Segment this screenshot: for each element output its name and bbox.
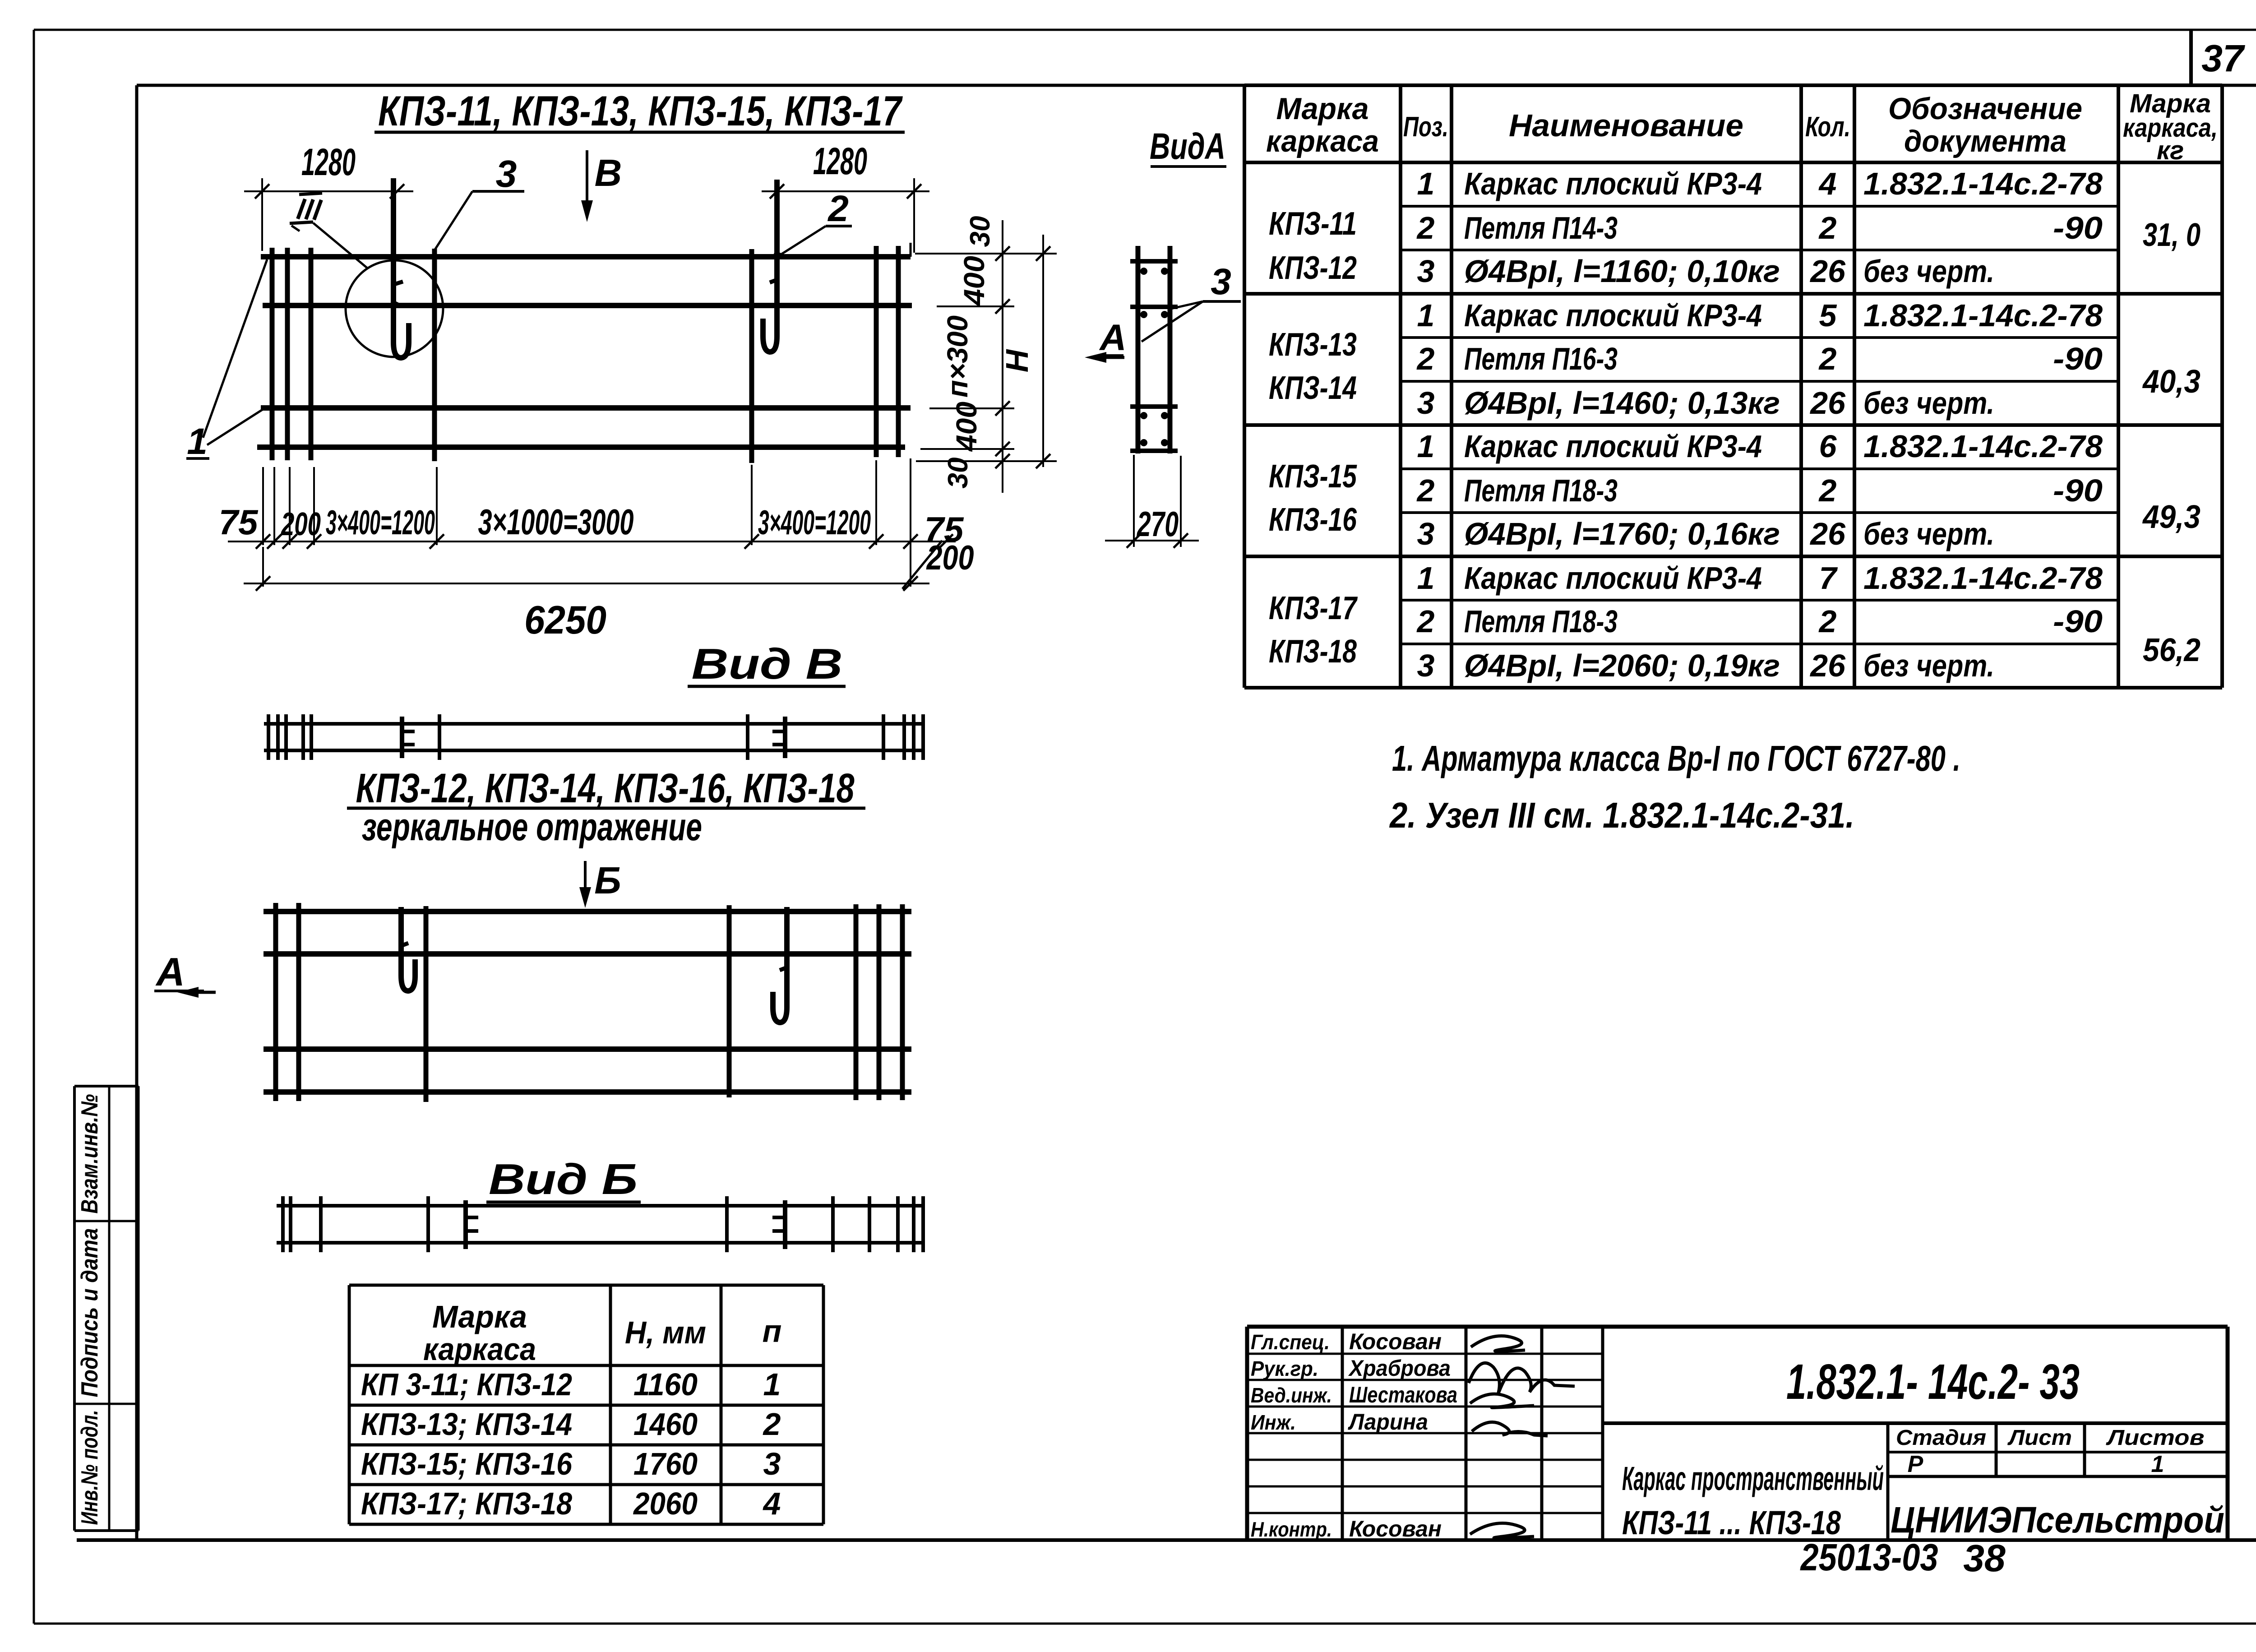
left margin stamp column (Взам.инв.№ / Подпись и дата / Инв.№ подл.) <box>74 1086 139 1531</box>
edge view strip (upper): cross ticks <box>268 714 923 760</box>
svg-text:Вид В: Вид В <box>692 640 843 688</box>
section arrow Б <box>579 859 621 908</box>
svg-text:Каркас пространственный: Каркас пространственный <box>1622 1460 1884 1497</box>
svg-text:п: п <box>763 1314 782 1349</box>
svg-text:3: 3 <box>1211 261 1231 302</box>
overall dimension 6250 <box>244 576 929 642</box>
svg-text:270: 270 <box>1137 504 1179 544</box>
svg-text:КПЗ-16: КПЗ-16 <box>1269 502 1357 538</box>
svg-text:Петля П18-3: Петля П18-3 <box>1464 473 1618 508</box>
vertical bar left cluster 3 <box>309 248 314 460</box>
svg-text:Каркас плоский КР3-4: Каркас плоский КР3-4 <box>1464 298 1762 333</box>
longitudinal bar 1 (top chord) <box>261 254 911 259</box>
svg-text:1: 1 <box>1417 298 1435 333</box>
section tie 2 <box>1130 305 1178 309</box>
svg-text:31, 0: 31, 0 <box>2143 217 2201 253</box>
svg-text:1: 1 <box>1417 560 1435 596</box>
svg-text:1. Арматура класса Вр-I п: 1. Арматура класса Вр-I по ГОСТ 6727-80 … <box>1392 738 1960 778</box>
svg-text:1280: 1280 <box>301 141 356 183</box>
svg-text:400: 400 <box>950 402 983 452</box>
svg-text:Ø4ВрI, l=1760; 0,16кг: Ø4ВрI, l=1760; 0,16кг <box>1464 516 1780 551</box>
svg-text:3: 3 <box>1417 385 1435 421</box>
Вид Б lifting loop hook 2 <box>773 907 787 1023</box>
label 3 with leaders (section) <box>1142 261 1241 342</box>
svg-text:3: 3 <box>1417 648 1435 683</box>
svg-text:26: 26 <box>1809 385 1846 421</box>
svg-text:2060: 2060 <box>633 1486 698 1521</box>
svg-text:1160: 1160 <box>633 1367 698 1402</box>
view title Вид Б <box>486 1155 641 1203</box>
section Вид А: vertical bar left <box>1136 246 1141 453</box>
svg-text:4: 4 <box>763 1486 781 1521</box>
Вид Б vertical bar left 1 <box>273 903 278 1101</box>
svg-text:Обозначение: Обозначение <box>1888 92 2082 126</box>
svg-text:3: 3 <box>496 153 517 195</box>
Вид Б vertical bar right 1 <box>854 904 859 1100</box>
svg-text:26: 26 <box>1809 254 1846 289</box>
svg-text:п×300: п×300 <box>941 315 974 398</box>
svg-text:2: 2 <box>763 1407 781 1442</box>
svg-text:7: 7 <box>1819 560 1838 596</box>
section tie 1 <box>1130 259 1178 264</box>
svg-text:А: А <box>1099 317 1126 358</box>
view title Вид В <box>688 640 846 688</box>
section Вид А: vertical bar right <box>1168 246 1173 453</box>
bottom dimension chain line <box>219 502 974 589</box>
svg-text:А: А <box>155 949 185 994</box>
svg-text:КПЗ-17; КПЗ-18: КПЗ-17; КПЗ-18 <box>361 1486 572 1521</box>
svg-text:Ø4ВрI, l=1160; 0,10кг: Ø4ВрI, l=1160; 0,10кг <box>1464 254 1780 289</box>
svg-text:КПЗ-13; КПЗ-14: КПЗ-13; КПЗ-14 <box>361 1407 572 1442</box>
svg-text:Р: Р <box>1908 1451 1923 1477</box>
Вид Б vertical bar right 2 <box>877 904 882 1100</box>
svg-text:3: 3 <box>1417 516 1435 551</box>
svg-text:2: 2 <box>827 188 849 229</box>
svg-text:Вед.инж.: Вед.инж. <box>1251 1384 1332 1407</box>
svg-text:Наименование: Наименование <box>1509 108 1743 143</box>
svg-text:Лист: Лист <box>2007 1426 2072 1450</box>
bottom extension lines <box>263 458 911 587</box>
svg-text:Косован: Косован <box>1349 1516 1442 1541</box>
svg-text:КПЗ-11: КПЗ-11 <box>1269 206 1357 242</box>
svg-text:4: 4 <box>1818 166 1837 201</box>
view direction arrow А (right of cage) <box>1085 317 1127 363</box>
drawing title КПЗ-11, КПЗ-13, КПЗ-15, КПЗ-17 <box>374 87 905 134</box>
Вид Б vertical bar (pos 3) <box>424 906 429 1102</box>
svg-text:26: 26 <box>1809 516 1846 551</box>
svg-text:Храброва: Храброва <box>1348 1356 1451 1381</box>
svg-text:Ларина: Ларина <box>1348 1409 1428 1435</box>
svg-text:Н.контр.: Н.контр. <box>1251 1518 1332 1541</box>
vertical bar mid <box>749 249 754 463</box>
svg-text:КПЗ-15; КПЗ-16: КПЗ-15; КПЗ-16 <box>361 1446 573 1481</box>
longitudinal bar 2 <box>263 303 912 308</box>
svg-text:Гл.спец.: Гл.спец. <box>1251 1330 1330 1354</box>
svg-text:Шестакова: Шестакова <box>1349 1382 1457 1407</box>
svg-text:6: 6 <box>1819 429 1837 464</box>
svg-text:Взам.инв.№: Взам.инв.№ <box>77 1094 103 1214</box>
svg-text:КПЗ-12, КПЗ-14, КПЗ-16, КПЗ-: КПЗ-12, КПЗ-14, КПЗ-16, КПЗ-18 <box>356 765 855 811</box>
Вид Б vertical bar mid <box>727 905 732 1097</box>
svg-text:2: 2 <box>1818 604 1837 639</box>
edge view strip (lower): cross ticks <box>283 1196 923 1252</box>
right extension lines <box>911 243 1057 461</box>
vertical bar right cluster 1 <box>874 246 879 457</box>
lifting loop hook 1 (поз.2) <box>393 178 409 358</box>
svg-text:каркаса: каркаса <box>423 1332 536 1367</box>
title КПЗ-12, КПЗ-14, КПЗ-16, КПЗ-18 <box>347 765 865 849</box>
svg-text:Петля П16-3: Петля П16-3 <box>1464 341 1618 376</box>
svg-text:КПЗ-13: КПЗ-13 <box>1269 327 1357 363</box>
dimension 1280 (left) <box>244 141 413 251</box>
svg-text:26: 26 <box>1809 648 1846 683</box>
svg-text:2: 2 <box>1818 210 1837 245</box>
svg-text:Каркас плоский КР3-4: Каркас плоский КР3-4 <box>1464 560 1762 596</box>
view label Вид А <box>1150 126 1226 167</box>
svg-text:зеркальное отражение: зеркальное отражение <box>362 805 702 849</box>
svg-text:Рук.гр.: Рук.гр. <box>1251 1357 1318 1380</box>
svg-text:75: 75 <box>219 502 259 542</box>
svg-text:1.832.1-14с.2-78: 1.832.1-14с.2-78 <box>1863 298 2103 333</box>
svg-text:Подпись и дата: Подпись и дата <box>77 1228 103 1397</box>
label 1 with leaders <box>186 259 267 462</box>
table Марка каркаса / Н,мм / п <box>349 1285 823 1524</box>
svg-text:Кол.: Кол. <box>1805 111 1850 143</box>
svg-text:КП 3-11; КПЗ-12: КП 3-11; КПЗ-12 <box>361 1367 572 1402</box>
svg-text:без черт.: без черт. <box>1863 648 1994 683</box>
section tie 3 <box>1130 404 1178 409</box>
detail circle узел III <box>346 260 443 357</box>
svg-text:Петля П14-3: Петля П14-3 <box>1464 210 1618 245</box>
dimension 1280 (right) <box>762 140 929 253</box>
svg-text:1: 1 <box>187 421 208 462</box>
longitudinal bar 3 <box>261 405 911 411</box>
svg-text:Стадия: Стадия <box>1896 1426 1986 1450</box>
section tie 4 <box>1130 449 1178 453</box>
svg-text:56,2: 56,2 <box>2143 632 2201 668</box>
svg-text:6250: 6250 <box>524 597 606 642</box>
vertical bar left cluster 2 <box>285 248 290 460</box>
svg-text:38: 38 <box>1963 1537 2006 1579</box>
view direction arrow А (left of Вид Б) <box>154 949 216 998</box>
svg-text:200: 200 <box>281 506 321 542</box>
sheet number box 37 <box>2191 30 2245 85</box>
svg-text:1280: 1280 <box>813 140 867 182</box>
vertical bar pos.3 (left) <box>432 249 437 461</box>
svg-text:КПЗ-15: КПЗ-15 <box>1269 458 1357 495</box>
specification rows <box>1269 166 2201 683</box>
stage/sheet cells <box>1896 1426 2205 1477</box>
label III with leader <box>290 193 367 268</box>
svg-text:Вид Б: Вид Б <box>489 1155 638 1203</box>
svg-text:КПЗ-14: КПЗ-14 <box>1269 370 1357 406</box>
svg-text:Листов: Листов <box>2106 1426 2204 1450</box>
label 2 with leader <box>780 188 852 255</box>
svg-text:200: 200 <box>926 539 974 577</box>
edge view strip (lower): rails <box>277 1206 925 1243</box>
svg-text:2: 2 <box>1416 604 1435 639</box>
svg-text:3×1000=3000: 3×1000=3000 <box>478 502 634 542</box>
edge view strip (upper): loop marks <box>402 717 785 758</box>
svg-text:37: 37 <box>2201 37 2245 79</box>
document code 25013-03 38 <box>1800 1536 2006 1579</box>
svg-text:кг: кг <box>2157 136 2184 165</box>
Вид Б longitudinal bar 2 <box>264 951 911 957</box>
svg-text:Б: Б <box>594 859 621 902</box>
svg-text:Ø4ВрI, l=2060; 0,19кг: Ø4ВрI, l=2060; 0,19кг <box>1464 648 1780 683</box>
section arrow В <box>581 150 622 222</box>
svg-text:Петля П18-3: Петля П18-3 <box>1464 604 1618 639</box>
vertical bar left cluster 1 <box>270 248 275 460</box>
svg-text:без черт.: без черт. <box>1863 385 1994 421</box>
svg-text:3×400=1200: 3×400=1200 <box>758 504 871 542</box>
svg-text:1: 1 <box>1417 429 1435 464</box>
svg-text:49,3: 49,3 <box>2142 499 2201 535</box>
svg-text:2: 2 <box>1416 210 1435 245</box>
svg-text:1760: 1760 <box>633 1446 698 1481</box>
lifting loop hook 2 (поз.2) <box>763 180 777 352</box>
svg-text:без черт.: без черт. <box>1863 254 1994 289</box>
svg-text:ВидА: ВидА <box>1150 126 1225 167</box>
svg-text:-90: -90 <box>2053 341 2103 376</box>
svg-text:2: 2 <box>1818 473 1837 508</box>
svg-text:2: 2 <box>1416 341 1435 376</box>
Вид Б longitudinal bar 3 <box>264 1046 911 1052</box>
svg-text:1: 1 <box>2151 1451 2164 1477</box>
svg-text:1460: 1460 <box>633 1407 698 1442</box>
specification table <box>1244 85 2222 688</box>
svg-text:-90: -90 <box>2053 473 2103 508</box>
title text Каркас пространственный КПЗ-11 ... КПЗ-18 <box>1622 1460 1884 1541</box>
svg-text:Каркас плоский КР3-4: Каркас плоский КР3-4 <box>1464 429 1762 464</box>
svg-text:1: 1 <box>763 1367 781 1402</box>
svg-text:2: 2 <box>1416 473 1435 508</box>
right dimension chain 30/400/nх300/400/30 <box>941 216 1010 493</box>
dimension 270 (section) <box>1105 455 1199 548</box>
specification table header text <box>1266 89 2218 165</box>
svg-text:В: В <box>595 152 622 194</box>
svg-text:25013-03: 25013-03 <box>1800 1536 1938 1578</box>
svg-text:3: 3 <box>763 1446 781 1481</box>
svg-text:1.832.1-14с.2-78: 1.832.1-14с.2-78 <box>1863 560 2103 596</box>
svg-text:1: 1 <box>1417 166 1435 201</box>
svg-text:1.832.1-14с.2-78: 1.832.1-14с.2-78 <box>1863 429 2103 464</box>
vertical bar right cluster 2 <box>896 246 901 457</box>
Вид Б vertical bar left 2 <box>296 903 301 1101</box>
svg-text:30: 30 <box>965 216 996 247</box>
svg-text:без черт.: без черт. <box>1863 516 1994 551</box>
Вид Б vertical bar right 3 <box>900 904 905 1100</box>
svg-text:каркаса: каркаса <box>1266 124 1379 158</box>
longitudinal bar 4 (bottom chord) <box>257 444 905 450</box>
svg-text:1.832.1-14с.2-78: 1.832.1-14с.2-78 <box>1863 166 2103 201</box>
svg-text:40,3: 40,3 <box>2142 364 2201 400</box>
overall height dimension Н <box>999 235 1050 468</box>
svg-text:Поз.: Поз. <box>1403 111 1448 143</box>
svg-text:КПЗ-17: КПЗ-17 <box>1269 590 1358 626</box>
svg-text:3×400=1200: 3×400=1200 <box>326 504 435 542</box>
label 3 with leader (top) <box>435 153 524 250</box>
svg-text:КПЗ-18: КПЗ-18 <box>1269 634 1357 670</box>
svg-text:КПЗ-12: КПЗ-12 <box>1269 250 1357 286</box>
svg-text:Н: Н <box>999 349 1035 372</box>
Вид Б lifting loop hook 1 <box>401 907 415 991</box>
Вид Б longitudinal bar 1 <box>264 909 911 914</box>
edge view strip (lower): loop marks <box>466 1200 785 1249</box>
svg-text:Косован: Косован <box>1349 1329 1442 1354</box>
svg-text:ЦНИИЭПсельстрой: ЦНИИЭПсельстрой <box>1891 1499 2224 1541</box>
svg-text:Н, мм: Н, мм <box>625 1315 706 1350</box>
svg-text:400: 400 <box>958 256 990 306</box>
title block signature rows <box>1251 1329 1457 1541</box>
svg-text:Марка: Марка <box>432 1299 527 1334</box>
svg-text:1.832.1- 14с.2- 33: 1.832.1- 14с.2- 33 <box>1786 1354 2080 1410</box>
svg-text:документа: документа <box>1904 124 2066 158</box>
title block frame <box>1247 1327 2228 1540</box>
section wire dots <box>1140 268 1168 446</box>
svg-text:2. Узел III см. 1.832.1-14: 2. Узел III см. 1.832.1-14с.2-31. <box>1389 795 1854 835</box>
signatures (squiggles) <box>1469 1336 1575 1538</box>
svg-text:-90: -90 <box>2053 604 2103 639</box>
svg-text:3: 3 <box>1417 254 1435 289</box>
svg-text:30: 30 <box>943 458 974 489</box>
Вид Б longitudinal bar 4 <box>264 1089 911 1095</box>
svg-text:КПЗ-11, КПЗ-13, КПЗ-15, КПЗ: КПЗ-11, КПЗ-13, КПЗ-15, КПЗ-17 <box>378 87 903 134</box>
svg-text:Инж.: Инж. <box>1251 1411 1296 1434</box>
edge view strip (upper): rails <box>264 724 923 750</box>
svg-text:5: 5 <box>1819 298 1837 333</box>
svg-text:Инв.№ подл.: Инв.№ подл. <box>77 1410 103 1525</box>
svg-text:Ø4ВрI, l=1460; 0,13кг: Ø4ВрI, l=1460; 0,13кг <box>1464 385 1780 421</box>
svg-text:Каркас плоский КР3-4: Каркас плоский КР3-4 <box>1464 166 1762 201</box>
svg-text:-90: -90 <box>2053 210 2103 245</box>
svg-text:2: 2 <box>1818 341 1837 376</box>
svg-text:Марка: Марка <box>1276 92 1369 126</box>
